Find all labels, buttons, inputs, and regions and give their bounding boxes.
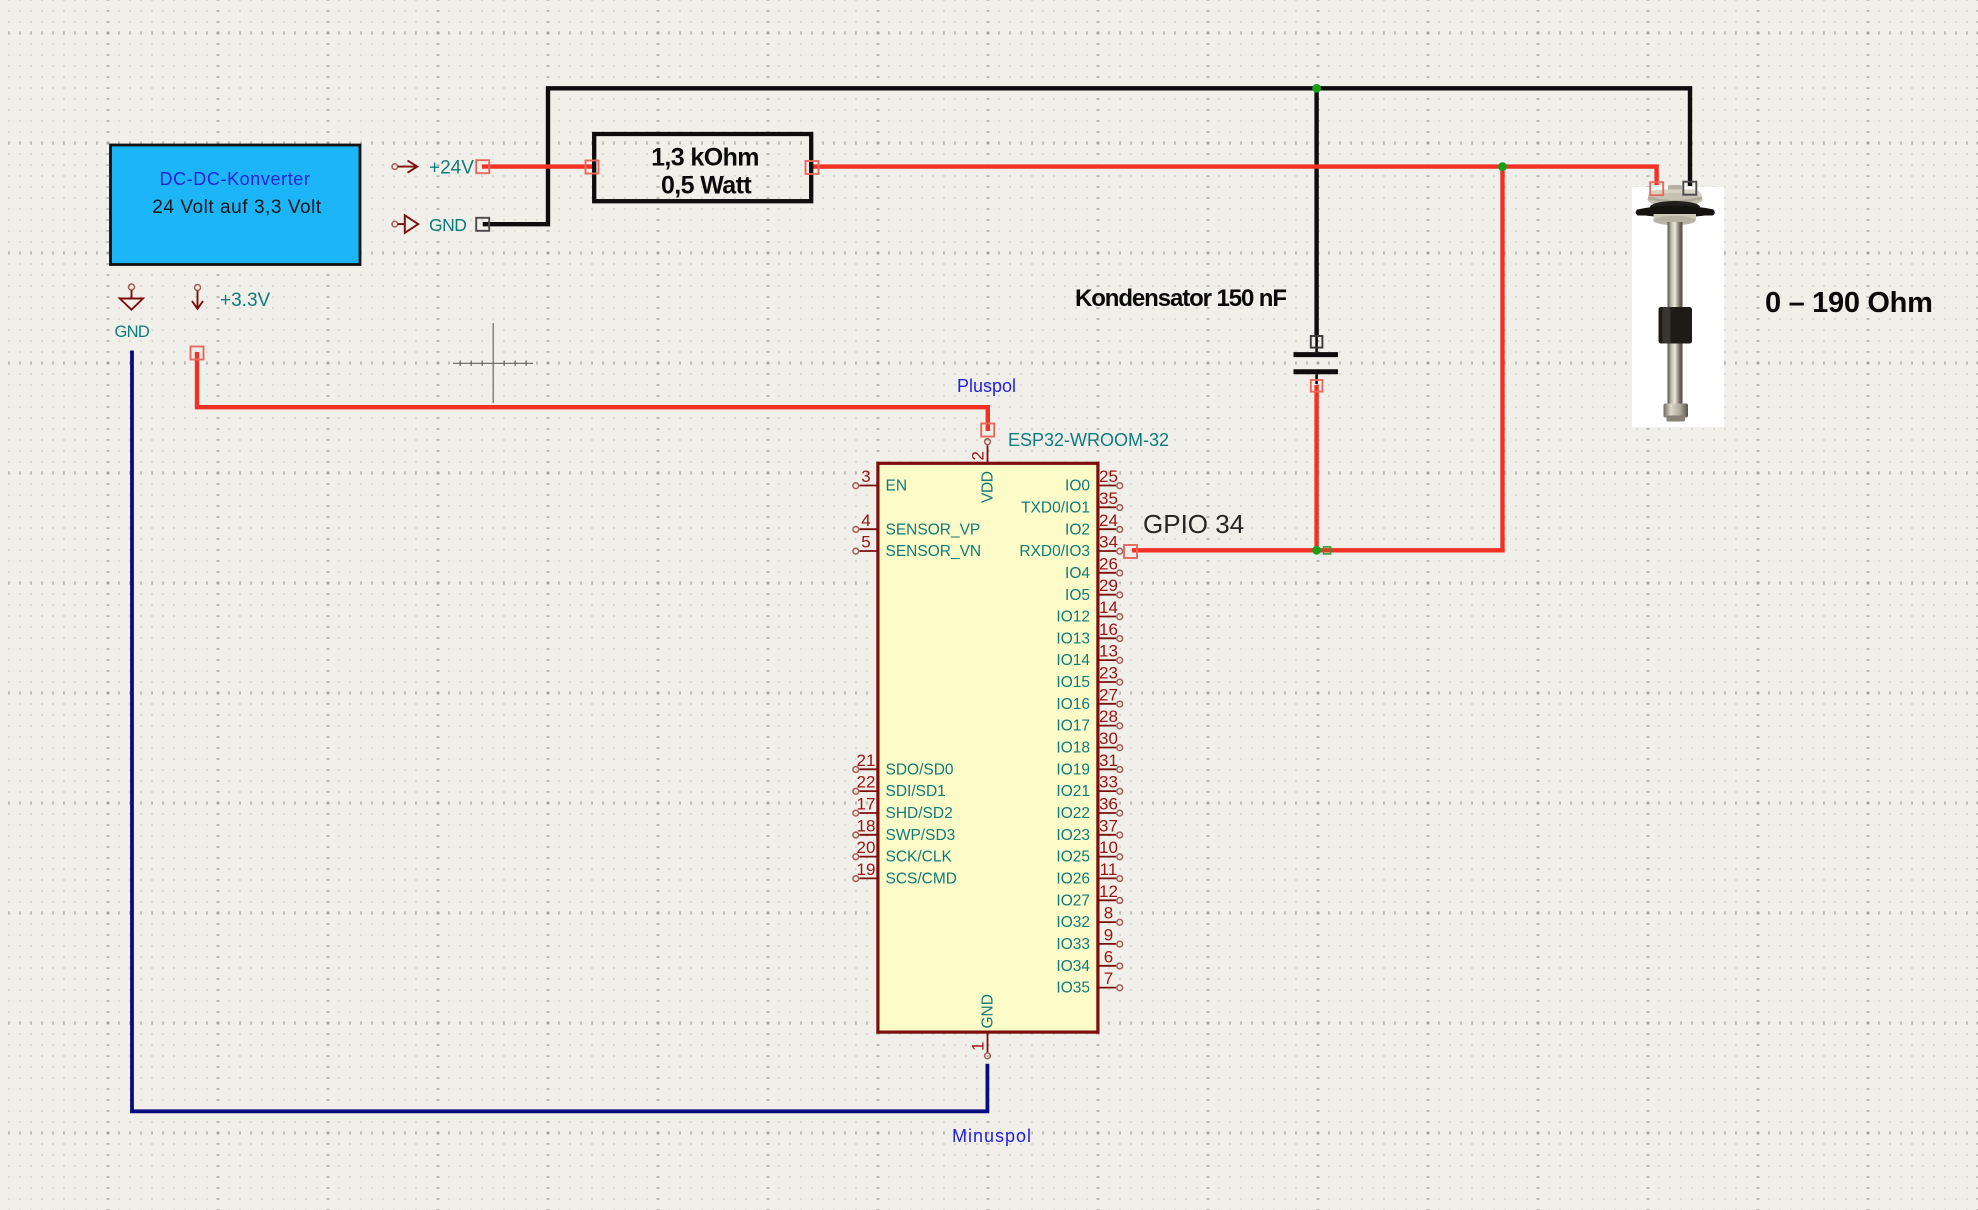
wire: GND of converter up and across top to sensor bbox=[483, 88, 1690, 224]
ESP32 right pin 33 IO21 bbox=[1056, 773, 1122, 801]
ESP32 right pin 26 IO4 bbox=[1065, 554, 1123, 582]
svg-text:IO12: IO12 bbox=[1056, 609, 1090, 626]
svg-text:23: 23 bbox=[1099, 664, 1118, 683]
ESP32 right pin 36 IO22 bbox=[1056, 795, 1122, 823]
svg-text:31: 31 bbox=[1099, 751, 1118, 770]
svg-text:IO22: IO22 bbox=[1056, 805, 1090, 822]
ESP32 right pin 27 IO16 bbox=[1056, 685, 1122, 713]
ESP32 right pin 13 IO14 bbox=[1056, 642, 1122, 670]
capacitor bottom pin square bbox=[1311, 380, 1323, 392]
ESP32 right pin 30 IO18 bbox=[1056, 729, 1122, 757]
svg-text:33: 33 bbox=[1099, 773, 1118, 792]
svg-text:SENSOR_VN: SENSOR_VN bbox=[886, 543, 982, 560]
svg-text:8: 8 bbox=[1104, 904, 1113, 923]
sensor pin square + bbox=[1650, 182, 1663, 195]
resistor pin square left bbox=[586, 161, 599, 174]
ESP32 chip body U1 bbox=[878, 463, 1098, 1032]
svg-text:IO14: IO14 bbox=[1056, 652, 1090, 669]
VDD wire-end square bbox=[981, 424, 994, 437]
svg-text:Minuspol: Minuspol bbox=[952, 1126, 1032, 1146]
ESP32 top pin 2 VDD bbox=[969, 439, 997, 503]
svg-text:SCK/CLK: SCK/CLK bbox=[886, 849, 953, 866]
fuel level sensor photo bbox=[1632, 185, 1724, 427]
svg-text:DC-DC-Konverter: DC-DC-Konverter bbox=[159, 169, 310, 189]
ESP32 right pin 28 IO17 bbox=[1056, 707, 1122, 735]
junction at top black wire bbox=[1312, 84, 1321, 93]
ESP32 right pin 23 IO15 bbox=[1056, 664, 1122, 692]
ESP32 left pin 5 SENSOR_VN bbox=[853, 533, 981, 561]
ESP32 right pin 9 IO33 bbox=[1056, 926, 1122, 954]
svg-text:IO4: IO4 bbox=[1065, 565, 1090, 582]
svg-text:24 Volt auf 3,3 Volt: 24 Volt auf 3,3 Volt bbox=[152, 197, 322, 218]
svg-text:IO34: IO34 bbox=[1056, 958, 1090, 975]
ESP32 right pin 29 IO5 bbox=[1065, 576, 1123, 604]
svg-text:IO25: IO25 bbox=[1056, 849, 1090, 866]
svg-text:14: 14 bbox=[1099, 598, 1118, 617]
svg-text:1: 1 bbox=[969, 1042, 988, 1051]
ESP32 left pin 18 SWP/SD3 bbox=[853, 816, 955, 844]
svg-text:17: 17 bbox=[857, 795, 876, 814]
ESP32 right pin 25 IO0 bbox=[1065, 467, 1123, 495]
svg-text:0,5 Watt: 0,5 Watt bbox=[661, 172, 752, 200]
svg-text:+24V: +24V bbox=[429, 157, 474, 178]
svg-text:IO26: IO26 bbox=[1056, 871, 1090, 888]
ESP32 left pin 3 EN bbox=[853, 467, 907, 495]
svg-text:SCS/CMD: SCS/CMD bbox=[886, 871, 957, 888]
+3.3V wire-end square bbox=[191, 347, 204, 360]
svg-text:IO35: IO35 bbox=[1056, 980, 1090, 997]
svg-text:4: 4 bbox=[861, 511, 870, 530]
ESP32 right pin 7 IO35 bbox=[1056, 969, 1122, 997]
wire: capacitor bottom down to GPIO34 net bbox=[1314, 385, 1318, 550]
svg-text:9: 9 bbox=[1104, 926, 1113, 945]
svg-text:IO23: IO23 bbox=[1056, 827, 1090, 844]
svg-text:35: 35 bbox=[1099, 489, 1118, 508]
svg-text:10: 10 bbox=[1099, 838, 1118, 857]
svg-text:GND: GND bbox=[429, 215, 466, 235]
svg-text:+3.3V: +3.3V bbox=[220, 290, 271, 311]
svg-text:IO15: IO15 bbox=[1056, 674, 1090, 691]
svg-text:GPIO 34: GPIO 34 bbox=[1143, 509, 1244, 539]
ESP32 right pin 10 IO25 bbox=[1056, 838, 1122, 866]
wire: resistor to sensor + pin bbox=[813, 167, 1657, 185]
svg-text:IO21: IO21 bbox=[1056, 783, 1090, 800]
resistor R (1,3 kOhm 0,5 Watt) bbox=[594, 134, 811, 201]
svg-text:0 – 190 Ohm: 0 – 190 Ohm bbox=[1765, 287, 1933, 319]
svg-text:RXD0/IO3: RXD0/IO3 bbox=[1019, 543, 1090, 560]
ESP32 right pin 6 IO34 bbox=[1056, 947, 1122, 975]
ESP32 left pin 19 SCS/CMD bbox=[853, 860, 957, 888]
wire: black branch down to capacitor bbox=[1314, 88, 1318, 336]
svg-text:25: 25 bbox=[1099, 467, 1118, 486]
RXD0/IO3 wire-end square bbox=[1124, 545, 1137, 558]
power label GND arrow bbox=[392, 215, 418, 233]
svg-text:20: 20 bbox=[857, 838, 876, 857]
svg-text:ESP32-WROOM-32: ESP32-WROOM-32 bbox=[1008, 430, 1169, 450]
ESP32 left pin 17 SHD/SD2 bbox=[853, 795, 953, 823]
capacitor top pin square bbox=[1311, 336, 1323, 348]
ESP32 right pin 16 IO13 bbox=[1056, 620, 1122, 648]
svg-text:SENSOR_VP: SENSOR_VP bbox=[886, 521, 981, 538]
svg-text:7: 7 bbox=[1104, 969, 1113, 988]
svg-text:IO17: IO17 bbox=[1056, 718, 1090, 735]
wire: GND symbol to ESP32 GND (Minuspol) bbox=[132, 351, 987, 1112]
svg-text:GND: GND bbox=[980, 994, 997, 1028]
svg-text:GND: GND bbox=[115, 323, 150, 341]
svg-text:SDI/SD1: SDI/SD1 bbox=[886, 783, 946, 800]
svg-text:SDO/SD0: SDO/SD0 bbox=[886, 761, 954, 778]
ESP32 bottom pin 1 GND bbox=[969, 994, 997, 1059]
svg-text:18: 18 bbox=[857, 816, 876, 835]
svg-text:IO32: IO32 bbox=[1056, 914, 1090, 931]
svg-text:VDD: VDD bbox=[980, 471, 997, 503]
svg-text:12: 12 bbox=[1099, 882, 1118, 901]
svg-text:11: 11 bbox=[1100, 860, 1118, 879]
ESP32 right pin 34 RXD0/IO3 bbox=[1019, 533, 1122, 561]
svg-text:1,3 kOhm: 1,3 kOhm bbox=[651, 144, 759, 172]
svg-text:37: 37 bbox=[1099, 816, 1118, 835]
svg-text:26: 26 bbox=[1099, 554, 1118, 573]
ESP32 left pin 22 SDI/SD1 bbox=[853, 773, 946, 801]
svg-text:5: 5 bbox=[861, 533, 870, 552]
svg-text:IO13: IO13 bbox=[1056, 630, 1090, 647]
ESP32 left pin 4 SENSOR_VP bbox=[853, 511, 980, 539]
GND wire-end square bbox=[476, 218, 489, 231]
svg-text:IO33: IO33 bbox=[1056, 936, 1090, 953]
+24V wire-end square bbox=[476, 160, 489, 173]
svg-text:SHD/SD2: SHD/SD2 bbox=[886, 805, 953, 822]
ESP32 right pin 35 TXD0/IO1 bbox=[1021, 489, 1123, 517]
power label +24V arrow bbox=[392, 161, 417, 173]
svg-text:34: 34 bbox=[1099, 533, 1118, 552]
svg-text:EN: EN bbox=[886, 478, 908, 495]
svg-text:IO5: IO5 bbox=[1065, 587, 1090, 604]
origin crosshair marker bbox=[453, 323, 533, 403]
sensor pin square - bbox=[1683, 182, 1696, 195]
svg-text:28: 28 bbox=[1099, 707, 1118, 726]
green net tie square bbox=[1324, 547, 1331, 554]
svg-text:36: 36 bbox=[1099, 795, 1118, 814]
ESP32 left pin 20 SCK/CLK bbox=[853, 838, 953, 866]
ESP32 right pin 8 IO32 bbox=[1056, 904, 1122, 932]
svg-text:22: 22 bbox=[857, 773, 876, 792]
ESP32 right pin 24 IO2 bbox=[1065, 511, 1123, 539]
junction on red wire to sensor bbox=[1498, 162, 1507, 171]
svg-text:2: 2 bbox=[969, 451, 988, 460]
svg-text:21: 21 bbox=[857, 751, 876, 770]
ESP32 left pin 21 SDO/SD0 bbox=[853, 751, 954, 779]
svg-text:IO16: IO16 bbox=[1056, 696, 1090, 713]
svg-text:13: 13 bbox=[1099, 642, 1118, 661]
ground symbol bbox=[120, 284, 143, 310]
power symbol +3.3V bbox=[192, 285, 203, 309]
ESP32 right pin 12 IO27 bbox=[1056, 882, 1122, 910]
svg-text:6: 6 bbox=[1104, 947, 1113, 966]
wire: +24V to resistor bbox=[482, 164, 592, 168]
svg-text:IO27: IO27 bbox=[1056, 892, 1090, 909]
ESP32 right pin 14 IO12 bbox=[1056, 598, 1122, 626]
capacitor C (150 nF) bbox=[1294, 336, 1339, 384]
svg-text:Kondensator 150 nF: Kondensator 150 nF bbox=[1075, 285, 1286, 312]
svg-text:TXD0/IO1: TXD0/IO1 bbox=[1021, 499, 1090, 516]
svg-text:27: 27 bbox=[1099, 685, 1118, 704]
svg-text:IO18: IO18 bbox=[1056, 740, 1090, 757]
svg-text:19: 19 bbox=[857, 860, 876, 879]
svg-text:Pluspol: Pluspol bbox=[957, 376, 1016, 396]
svg-text:29: 29 bbox=[1099, 576, 1118, 595]
ESP32 right pin 31 IO19 bbox=[1056, 751, 1122, 779]
resistor pin square right bbox=[806, 161, 819, 174]
ESP32 right pin 11 IO26 bbox=[1056, 860, 1122, 888]
svg-text:3: 3 bbox=[861, 467, 870, 486]
DC-DC converter block bbox=[111, 145, 361, 265]
svg-text:16: 16 bbox=[1099, 620, 1118, 639]
wire: RXD0/IO3 to sensor branch bbox=[1132, 167, 1503, 551]
svg-text:SWP/SD3: SWP/SD3 bbox=[886, 827, 956, 844]
svg-text:IO19: IO19 bbox=[1056, 761, 1090, 778]
svg-text:IO2: IO2 bbox=[1065, 521, 1090, 538]
svg-text:30: 30 bbox=[1099, 729, 1118, 748]
svg-text:24: 24 bbox=[1099, 511, 1118, 530]
svg-text:IO0: IO0 bbox=[1065, 478, 1090, 495]
wire: +3.3V to VDD (Pluspol) bbox=[197, 352, 988, 431]
ESP32 right pin 37 IO23 bbox=[1056, 816, 1122, 844]
junction on GPIO34 net bbox=[1312, 546, 1321, 555]
